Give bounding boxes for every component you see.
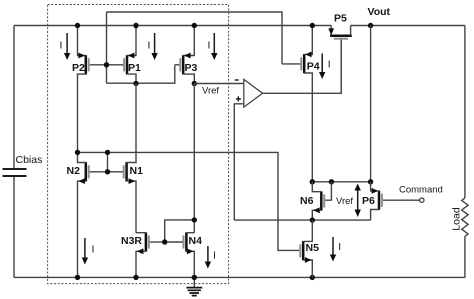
Vref measurement double arrow: [355, 184, 361, 218]
wire: net B riser to gates: [107, 152, 109, 171]
svg-text:Vref: Vref: [202, 86, 219, 97]
transistor P6 (PMOS, gate right, opening left): [362, 182, 420, 220]
svg-text:P2: P2: [72, 62, 85, 74]
svg-text:Vout: Vout: [368, 6, 391, 18]
node: N4 source / ground symbol: [192, 275, 197, 280]
ground symbol: [186, 277, 202, 295]
current arrow I (P1 branch): [148, 33, 158, 60]
wire: Vout sense column: [370, 26, 372, 182]
wire: net A gate bus (P1/P2/P3/P4 gates + P1 drain): [107, 12, 283, 83]
svg-text:P3: P3: [185, 62, 198, 74]
svg-text:P6: P6: [362, 195, 375, 207]
svg-text:P4: P4: [307, 61, 320, 73]
wire: N3R/N4 gate link up to Vref column: [165, 220, 195, 242]
wire: Vref column down to N4 drain: [193, 84, 195, 233]
svg-text:N2: N2: [67, 165, 81, 177]
svg-text:Vref: Vref: [336, 196, 353, 207]
svg-text:N3R: N3R: [121, 235, 142, 247]
load resistor (zigzag): [462, 198, 468, 236]
node: P4 drain / N6 drain: [310, 179, 315, 184]
node: N1/N2 gates: [105, 169, 110, 174]
wire: left supply line lower (from Cbias bottom plate): [13, 176, 15, 277]
node: P1/P2 gates junction: [104, 62, 109, 67]
transistor P4 (PMOS, gate left, opening right): [282, 26, 320, 182]
transistor N5 (NMOS, gate left, opening right): [300, 220, 319, 277]
svg-text:N4: N4: [189, 235, 203, 247]
node: Vout on top rail: [368, 23, 373, 28]
node: N4 drain / gate tie on Vref column: [192, 217, 197, 222]
node: Vref at P3 drain: [192, 81, 197, 86]
wire: N6/P6 top row: [312, 181, 370, 183]
capacitor Cbias: [3, 154, 43, 176]
svg-text:I: I: [60, 40, 63, 52]
node: N2 source on ground rail: [75, 275, 80, 280]
current arrow I (P3 branch): [208, 33, 218, 60]
current arrow I (N2 branch): [82, 238, 95, 265]
svg-text:I: I: [148, 40, 151, 52]
node: N6 gate tie: [329, 179, 334, 184]
svg-text:P5: P5: [334, 12, 347, 24]
label Command and terminal: [399, 185, 443, 203]
transistor N4 (NMOS, gate left, opening right): [165, 232, 202, 277]
svg-text:Cbias: Cbias: [16, 154, 43, 166]
transistor N6 (NMOS, gate right, opening left): [300, 182, 331, 220]
svg-text:Load: Load: [450, 207, 462, 231]
node: net B tap: [105, 150, 110, 155]
node: N6 source / N5 drain: [310, 217, 315, 222]
wire: right load branch upper: [464, 26, 466, 199]
current arrow I (N4 branch): [205, 246, 216, 269]
transistor P3 (PMOS, gate left, opening right): [175, 26, 198, 84]
svg-text:I: I: [338, 241, 341, 253]
dashed bias-core boundary box: [48, 5, 229, 284]
svg-text:I: I: [213, 250, 216, 262]
op-amp U1: [234, 40, 341, 220]
svg-text:N1: N1: [130, 165, 144, 177]
wire: top bias rail (left of P5): [14, 25, 331, 27]
node: N2 drain: [75, 150, 80, 155]
current arrow I (P4 branch): [319, 54, 331, 80]
transistor N3R (NMOS, gate right, opening left): [121, 232, 165, 277]
svg-text:I: I: [208, 40, 211, 52]
wire: bottom ground rail: [14, 276, 465, 278]
transistor P2 (PMOS, gate right, opening left): [72, 26, 107, 153]
wire: net B (N2 drain / N1,N2 gate bus, over to N5 gate): [78, 152, 300, 250]
current arrow I (N5 branch): [330, 237, 341, 262]
node: Vout column joins row: [368, 179, 373, 184]
svg-text:I: I: [328, 59, 331, 71]
wire: top rail from P5 drain to right edge: [351, 25, 465, 27]
node: N3R/N4 gates: [162, 239, 167, 244]
wire: feedback row (op-amp + / N6 source / N5 drain / P6 drain): [234, 219, 370, 221]
node: top rail P1: [133, 23, 138, 28]
transistor P1 (PMOS, gate left, opening right): [107, 26, 142, 84]
svg-text:Command: Command: [399, 185, 443, 196]
svg-text:P1: P1: [128, 62, 141, 74]
svg-text:N6: N6: [300, 195, 314, 207]
svg-text:I: I: [92, 244, 95, 256]
transistor P5 (PMOS pass device, horizontal, gate below): [328, 12, 352, 93]
wire: right load branch lower: [464, 236, 466, 277]
node: top rail P2: [75, 23, 80, 28]
svg-text:N5: N5: [306, 242, 320, 254]
node: top rail P3: [192, 23, 197, 28]
transistor N1 (NMOS, gate left, opening right): [108, 83, 144, 232]
node: N3R source on ground rail: [133, 275, 138, 280]
node: top rail P4: [310, 23, 315, 28]
transistor N2 (NMOS, gate right, opening left): [67, 152, 108, 277]
node: P1 drain on net A: [133, 81, 138, 86]
node: N5 source on ground rail: [310, 275, 315, 280]
wire: Vref to op-amp minus input: [194, 83, 244, 85]
current arrow I (P2 branch): [60, 33, 71, 60]
wire: left supply line upper (to Cbias top plate): [13, 26, 15, 170]
